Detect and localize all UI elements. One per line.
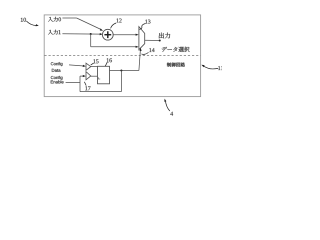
adder U12 (circle with plus) xyxy=(102,29,113,40)
label input 1 (入力1) xyxy=(48,30,60,35)
leader from 16 to latch xyxy=(105,62,107,66)
reference numeral 12 xyxy=(117,18,122,22)
wire mux output xyxy=(145,39,159,41)
reference numeral 4 xyxy=(170,112,173,116)
leader from 11 to box edge xyxy=(204,66,219,69)
wire enable arrow into feedback gate xyxy=(80,75,84,77)
reference numeral 10 xyxy=(21,18,26,22)
block 4 outer box (programmable logic cell) xyxy=(44,15,200,97)
wire config data into pass gate xyxy=(69,65,84,66)
wire adder output to mux xyxy=(113,34,137,36)
dashed divider between logic section and control circuit 11 xyxy=(44,54,200,56)
junction node on latch output xyxy=(120,70,122,72)
wire bypass vertical xyxy=(90,34,92,47)
leader arrow from 4 to box bottom xyxy=(165,101,169,111)
wire input0 horizontal xyxy=(62,17,76,19)
wire buffer 17 to latch 16 xyxy=(91,75,98,77)
wire bypass to mux lower input xyxy=(91,46,137,48)
reference numeral 16 xyxy=(107,58,112,62)
wire feedback bottom xyxy=(80,91,121,93)
wire input1 into adder xyxy=(62,33,100,35)
latch 16 interior tick xyxy=(98,77,100,79)
leader from 13 to mux xyxy=(139,24,145,30)
label input 0 (入力0) xyxy=(48,17,61,22)
leader arrow from 10 to box xyxy=(26,21,36,26)
wire input0 slope into adder xyxy=(77,18,101,29)
wire config enable horizontal xyxy=(66,81,80,83)
leader from 12 to adder xyxy=(111,23,117,28)
multiplexer U13 (trapezoid) xyxy=(139,27,145,50)
label data select (データ選択) xyxy=(162,47,190,52)
reference numeral 13 xyxy=(145,20,150,24)
wire buffer 15 to latch 16 xyxy=(91,66,98,68)
reference numeral 14 xyxy=(149,48,154,52)
reference numeral 17 xyxy=(85,86,90,90)
reference numeral 15 xyxy=(93,59,98,63)
wire enable riser xyxy=(79,76,81,92)
reference numeral 11 xyxy=(218,66,223,70)
label output (出力) xyxy=(159,33,170,39)
label Config Enable xyxy=(51,76,63,80)
leader from 17 to buffer xyxy=(84,82,86,86)
label Config Data xyxy=(51,62,63,66)
wire latch output xyxy=(110,70,139,72)
feedback buffer Q17 (triangle) xyxy=(86,72,91,80)
latch U16 (memory box) xyxy=(98,66,110,84)
junction node on input1 xyxy=(90,33,92,35)
label control circuit (制御回路) xyxy=(167,63,185,67)
wire feedback drop xyxy=(120,71,122,92)
leader from 15 to buffer xyxy=(91,63,94,65)
wire mux select riser xyxy=(139,50,141,71)
pass buffer Q15 (triangle) xyxy=(86,63,91,70)
leader from 14 to select wire xyxy=(142,52,149,54)
